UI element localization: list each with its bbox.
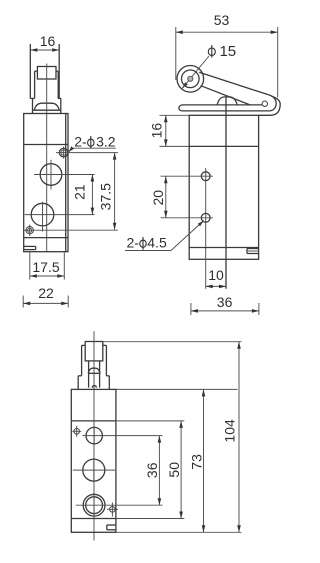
right view seam upper xyxy=(160,145,259,147)
svg-text:3.2: 3.2 xyxy=(96,134,116,150)
svg-text:37.5: 37.5 xyxy=(97,183,113,210)
svg-text:21: 21 xyxy=(71,184,87,200)
bottom view centerline xyxy=(93,331,95,540)
dimension 21 (left view) xyxy=(60,175,95,215)
bottom view roller bracket xyxy=(82,345,107,375)
svg-text:22: 22 xyxy=(38,285,54,301)
dimension 36 (bottom view) xyxy=(144,436,161,506)
bottom view port circle 1 xyxy=(83,426,163,445)
svg-text:50: 50 xyxy=(166,462,182,478)
left view bottom-left tab xyxy=(24,246,36,249)
right view body outline xyxy=(189,115,258,259)
dimension 10 (right view) xyxy=(206,267,226,288)
port circle upper (left view) xyxy=(34,160,67,190)
right view bottom-right tab xyxy=(247,249,259,254)
dimension 104 (bottom view) xyxy=(221,342,240,533)
left view seam lower xyxy=(24,237,68,239)
dimension 17.5 (left view) xyxy=(30,253,65,280)
svg-text:73: 73 xyxy=(189,454,205,470)
bracket left rounded cap xyxy=(179,105,262,111)
bottom view cross hole bottom-right xyxy=(107,503,118,517)
svg-text:20: 20 xyxy=(150,190,166,206)
left view spring boot dome xyxy=(33,103,61,110)
plunger dome bump (right view) xyxy=(217,97,237,105)
bottom view bottom-right tab xyxy=(107,525,116,530)
svg-text:17.5: 17.5 xyxy=(32,259,59,275)
label 2-phi4.5 with leader xyxy=(125,221,204,251)
label 2-phi3.2 with leader xyxy=(68,134,116,153)
bottom view cross hole top-left xyxy=(72,426,81,437)
svg-text:10: 10 xyxy=(208,267,224,283)
mounting hole lower 4.5 (right view) xyxy=(161,213,214,222)
bottom view plunger stem xyxy=(89,361,100,388)
svg-text:16: 16 xyxy=(149,123,165,139)
roller hub xyxy=(188,76,193,81)
roller wheel (right view) xyxy=(177,66,204,93)
right view plunger axis seam xyxy=(225,97,227,289)
screw head (left view bottom-left) xyxy=(24,225,36,237)
svg-text:16: 16 xyxy=(40,33,56,49)
bottom view body outline xyxy=(71,389,116,532)
left view roller front xyxy=(37,67,56,80)
bottom view collar step xyxy=(78,376,109,390)
dimension 53 lever length (right view) xyxy=(176,12,278,98)
bracket hinge outer fold xyxy=(259,96,281,115)
svg-text:53: 53 xyxy=(214,12,230,28)
mounting hole 2-phi3.2 (left view) xyxy=(56,147,118,159)
bottom view seam upper xyxy=(71,420,116,422)
dimension 22 (left view) xyxy=(23,285,68,308)
svg-text:36: 36 xyxy=(144,462,160,478)
bottom view extension lines to the right xyxy=(103,342,242,533)
svg-text:4.5: 4.5 xyxy=(147,235,167,251)
bottom view poppet tip xyxy=(92,386,96,388)
left view seam upper xyxy=(24,144,68,146)
left view roller bracket xyxy=(35,71,59,98)
dimension 16 plunger width (left view) xyxy=(30,33,59,52)
left view centerline xyxy=(46,64,48,252)
dimension 16 (right view) xyxy=(149,115,168,146)
dimension 36 (right view) xyxy=(191,294,259,315)
port circle lower (left view) xyxy=(25,202,60,232)
bottom view port circle 3 double xyxy=(76,493,163,517)
lever arm lower edge xyxy=(201,86,250,105)
bottom view seam lower xyxy=(71,518,116,520)
lever fork end around hub xyxy=(182,70,200,88)
lever right rounded end xyxy=(182,95,276,111)
left view inner edge line xyxy=(65,114,67,252)
label phi15 with leader xyxy=(182,43,236,88)
left view body outline xyxy=(24,114,68,252)
dimension 37.5 (left view) xyxy=(36,153,118,231)
lever pivot pin xyxy=(262,101,267,106)
bottom view stem dome xyxy=(88,368,100,373)
svg-text:36: 36 xyxy=(217,294,233,310)
svg-text:15: 15 xyxy=(219,43,236,60)
svg-text:104: 104 xyxy=(221,419,237,443)
dimension 50 (bottom view) xyxy=(166,421,183,519)
dimension 20 (right view) xyxy=(150,176,168,218)
right view seam near bottom xyxy=(189,247,258,249)
svg-text:2-: 2- xyxy=(74,134,87,150)
left view collar step xyxy=(30,98,61,113)
dimension 73 (bottom view) xyxy=(189,389,206,532)
lever arm upper edge xyxy=(199,72,268,95)
bottom view roller block xyxy=(85,342,103,361)
right view hole centerline xyxy=(205,168,207,289)
svg-text:2-: 2- xyxy=(126,235,139,251)
right view body top extension xyxy=(160,114,190,116)
left view plunger outer guides xyxy=(30,44,59,98)
mounting hole upper 4.5 (right view) xyxy=(161,172,214,181)
bottom view port circle 2 xyxy=(73,458,115,482)
